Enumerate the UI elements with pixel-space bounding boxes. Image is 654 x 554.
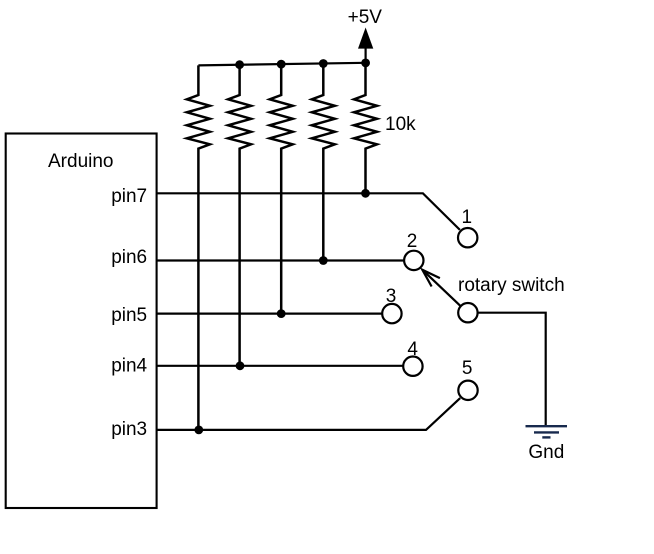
svg-text:3: 3 xyxy=(386,286,397,307)
svg-text:10k: 10k xyxy=(385,114,416,135)
svg-text:1: 1 xyxy=(462,207,473,228)
svg-text:Gnd: Gnd xyxy=(528,442,564,463)
svg-text:pin4: pin4 xyxy=(111,356,147,377)
svg-text:pin5: pin5 xyxy=(111,305,147,326)
svg-text:5: 5 xyxy=(462,358,473,379)
svg-text:pin7: pin7 xyxy=(111,186,147,207)
svg-text:rotary switch: rotary switch xyxy=(458,275,565,296)
svg-text:Arduino: Arduino xyxy=(48,151,114,172)
svg-text:+5V: +5V xyxy=(348,7,383,28)
svg-text:2: 2 xyxy=(407,231,418,252)
svg-text:4: 4 xyxy=(407,339,418,360)
svg-text:pin3: pin3 xyxy=(111,419,147,440)
svg-text:pin6: pin6 xyxy=(111,247,147,268)
